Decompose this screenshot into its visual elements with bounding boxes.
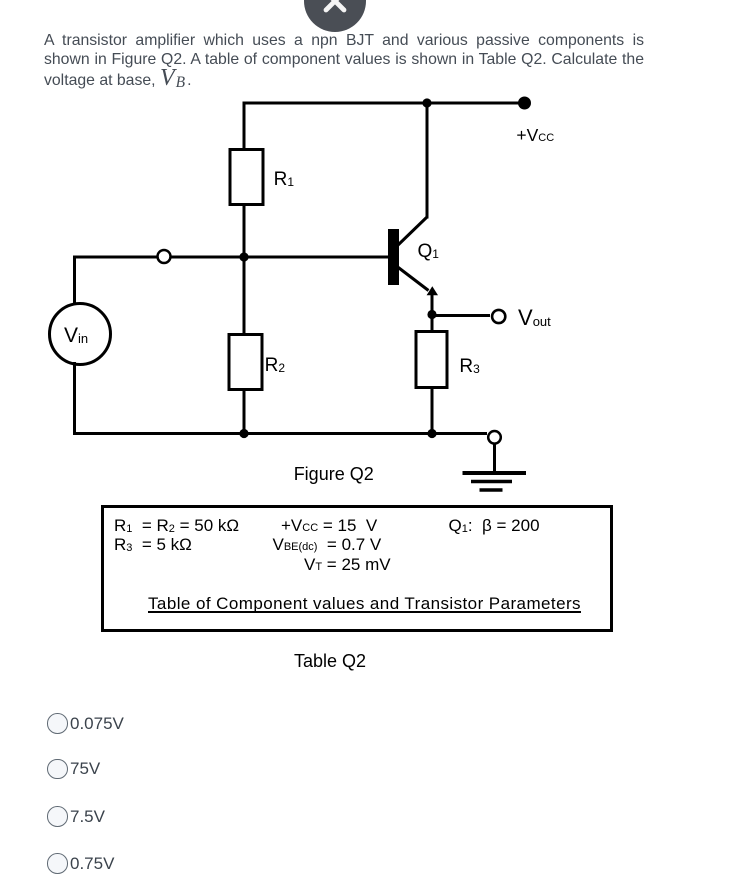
- transistor Q1 collector lead: [397, 103, 427, 246]
- node collector-rail junction: [422, 98, 431, 107]
- node base junction: [239, 252, 248, 261]
- wire emitter to Vout node: [431, 294, 434, 315]
- wire bottom rail: [75, 432, 488, 435]
- node +Vcc terminal: [518, 97, 531, 110]
- node input open terminal: [158, 250, 171, 263]
- table col3 row1: [449, 516, 540, 536]
- table Q2 box: [101, 505, 613, 632]
- option 2 radio: [47, 759, 68, 780]
- wire R2 top lead: [243, 257, 246, 334]
- label Table Q2: [294, 651, 366, 672]
- wire R1 bottom lead: [243, 206, 246, 258]
- table caption: [148, 594, 581, 614]
- question text: [44, 31, 644, 93]
- table col1 row2: [114, 535, 192, 555]
- option 3 radio: [47, 806, 68, 827]
- option 3 label: [70, 807, 105, 827]
- wire Vout lead: [432, 314, 490, 317]
- table col1 row1: [114, 516, 239, 536]
- node R3 bottom junction: [427, 429, 436, 438]
- option 1 radio: [47, 713, 68, 734]
- option 4 radio: [47, 853, 68, 874]
- wire Vin bottom lead: [73, 362, 76, 435]
- option 4 label: [70, 854, 114, 874]
- label Q1: [418, 241, 439, 263]
- resistor R2: [229, 335, 262, 390]
- node Vout open terminal: [492, 310, 505, 323]
- label Figure Q2: [294, 464, 374, 485]
- wire ground lead: [493, 445, 496, 472]
- wire Vin top lead: [73, 256, 76, 307]
- close button (dark circle with X, cut off at top): [304, 0, 366, 32]
- wire R3 bottom lead: [431, 388, 434, 434]
- option 1 label: [70, 714, 124, 734]
- wire top rail: [244, 102, 524, 105]
- transistor Q1 base bar: [388, 229, 399, 285]
- table col2 row3: [304, 555, 391, 575]
- node Vout junction: [427, 310, 436, 319]
- wire R2 bottom lead: [243, 390, 246, 434]
- label Vout: [518, 305, 551, 331]
- label Vin: [64, 324, 88, 348]
- node R2 bottom junction: [239, 429, 248, 438]
- label +Vcc: [516, 125, 554, 146]
- transistor Q1 emitter lead with arrow: [397, 267, 429, 291]
- option 2 label: [70, 759, 100, 779]
- wire R3 top lead: [431, 319, 434, 331]
- wire R1 top lead: [243, 102, 246, 149]
- table col2 row1: [281, 516, 377, 536]
- resistor R1: [230, 150, 263, 205]
- node ground open terminal: [488, 431, 501, 444]
- label R3: [459, 356, 479, 378]
- ground symbol: [463, 471, 527, 475]
- wire base rail: [75, 256, 389, 259]
- label R1: [274, 169, 294, 191]
- resistor R3: [416, 332, 447, 388]
- table col2 row2: [273, 535, 382, 555]
- source Vin: [50, 304, 111, 365]
- label R2: [265, 355, 285, 377]
